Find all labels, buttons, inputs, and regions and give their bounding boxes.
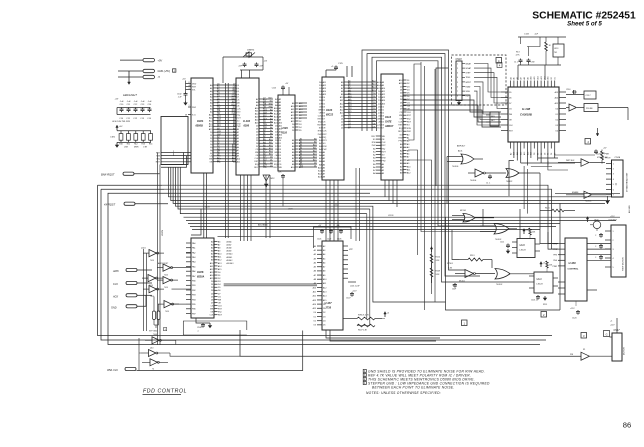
svg-text:RDY: RDY xyxy=(398,131,403,133)
wire loop below U101 xyxy=(161,153,187,168)
svg-text:PB2: PB2 xyxy=(192,290,196,292)
svg-text:PA6: PA6 xyxy=(192,270,195,273)
wire long bottom to motor driver xyxy=(240,330,581,356)
svg-text:+12V: +12V xyxy=(610,216,615,218)
svg-text:A8: A8 xyxy=(348,89,350,92)
svg-text:D1: D1 xyxy=(314,166,316,168)
title SCHEMATIC #252451 xyxy=(532,10,636,21)
svg-text:A14: A14 xyxy=(323,295,326,298)
ground CN18 xyxy=(457,101,460,105)
svg-text:A2: A2 xyxy=(323,245,325,248)
svg-text:D0: D0 xyxy=(348,114,350,116)
svg-text:A12: A12 xyxy=(263,164,266,167)
svg-text:C116: C116 xyxy=(566,89,570,91)
svg-text:PA3: PA3 xyxy=(192,256,195,259)
svg-text:A15: A15 xyxy=(547,76,550,79)
svg-text:SIDE: SIDE xyxy=(466,91,471,93)
wire ACK xyxy=(137,294,152,296)
IC U110 74LS123 xyxy=(512,239,540,258)
svg-text:A15: A15 xyxy=(348,110,351,113)
svg-text:IRQ: IRQ xyxy=(323,137,327,139)
svg-text:A7: A7 xyxy=(323,266,325,269)
IC U104 65C22 xyxy=(317,77,344,180)
svg-text:C1R2: C1R2 xyxy=(110,136,116,138)
svg-text:.1: .1 xyxy=(197,331,199,333)
bus corner wires into main bus xyxy=(169,167,617,302)
svg-text:SO: SO xyxy=(373,139,376,141)
svg-text:A13: A13 xyxy=(269,147,272,150)
svg-text:A5: A5 xyxy=(513,77,516,79)
resistor pair R116 R117 xyxy=(149,297,167,333)
svg-text:D0: D0 xyxy=(373,93,375,95)
svg-text:PH4: PH4 xyxy=(553,260,557,262)
svg-text:D5: D5 xyxy=(373,108,375,110)
svg-text:R13: R13 xyxy=(141,144,144,146)
svg-text:A14: A14 xyxy=(269,150,272,153)
svg-text:A14: A14 xyxy=(555,96,558,99)
U101 control pins lower-left xyxy=(156,151,191,164)
svg-text:PWR: PWR xyxy=(553,266,558,268)
svg-text:A9: A9 xyxy=(526,77,529,79)
pullup resistors R110 R111 xyxy=(430,247,454,283)
svg-text:1: 1 xyxy=(613,163,614,165)
ground LED network xyxy=(115,142,118,147)
svg-text:A8: A8 xyxy=(314,138,316,141)
svg-text:R113: R113 xyxy=(470,255,474,257)
svg-text:C107: C107 xyxy=(346,298,351,300)
svg-text:ERASE: ERASE xyxy=(572,191,579,194)
svg-text:IRQ: IRQ xyxy=(263,115,267,117)
svg-text:C1W: C1W xyxy=(531,62,535,64)
svg-text:74LS06: 74LS06 xyxy=(452,166,458,168)
svg-text:LS123: LS123 xyxy=(520,250,527,252)
svg-text:LE10 10N 7WL R/W: LE10 10N 7WL R/W xyxy=(112,121,130,123)
connector -5V xyxy=(143,75,160,79)
svg-text:3: 3 xyxy=(613,174,614,176)
svg-text:C112: C112 xyxy=(500,242,504,244)
svg-text:A2: A2 xyxy=(300,141,302,144)
svg-text:D1: D1 xyxy=(556,114,558,116)
transistor Q103 xyxy=(590,220,601,232)
svg-text:A1: A1 xyxy=(217,139,219,142)
svg-text:A13: A13 xyxy=(313,299,316,302)
connector GND2 xyxy=(111,305,137,310)
svg-text:IRQ: IRQ xyxy=(237,114,241,116)
svg-text:3: 3 xyxy=(189,88,190,90)
svg-text:U-109: U-109 xyxy=(569,261,577,265)
svg-text:D1: D1 xyxy=(348,117,350,119)
svg-text:R/W: R/W xyxy=(372,142,376,144)
svg-text:R110: R110 xyxy=(436,257,440,259)
svg-text:NOTES: UNLESS OTHERWISE SPECIF: NOTES: UNLESS OTHERWISE SPECIFIED: xyxy=(366,391,441,395)
svg-text:A10: A10 xyxy=(313,286,316,289)
svg-text:4: 4 xyxy=(613,179,614,181)
svg-text:D3: D3 xyxy=(544,153,546,155)
svg-text:A9: A9 xyxy=(323,274,325,277)
subtitle Sheet 5 of 5 xyxy=(567,21,602,28)
svg-text:CN14: CN14 xyxy=(615,156,621,159)
svg-text:S.O.: S.O. xyxy=(192,114,196,116)
svg-text:WGAT: WGAT xyxy=(466,67,472,70)
svg-text:D7: D7 xyxy=(509,103,511,105)
svg-text:D6: D6 xyxy=(217,101,219,103)
svg-text:A8: A8 xyxy=(300,159,302,162)
svg-text:A5.A8: A5.A8 xyxy=(227,247,232,250)
svg-text:R107 1.3K: R107 1.3K xyxy=(358,330,368,332)
svg-text:65C22: 65C22 xyxy=(326,114,334,117)
svg-text:IRQ: IRQ xyxy=(218,312,222,314)
bus wire taps down from U102 xyxy=(226,83,271,241)
inverter gates input cluster xyxy=(141,248,179,313)
svg-text:7414: 7414 xyxy=(150,260,154,262)
svg-text:D0: D0 xyxy=(217,84,219,86)
svg-text:PH3: PH3 xyxy=(553,255,557,257)
svg-text:A15: A15 xyxy=(313,159,316,162)
svg-text:R/W: R/W xyxy=(407,128,411,130)
bus wires U104 to U112 xyxy=(348,80,377,129)
bus wires U106 to U107 xyxy=(218,236,318,285)
svg-text:BNK-RQST: BNK-RQST xyxy=(101,173,115,177)
svg-text:RDY: RDY xyxy=(231,103,236,105)
power arrow +5V xyxy=(116,125,123,130)
svg-text:SO: SO xyxy=(319,128,322,130)
svg-text:D3: D3 xyxy=(314,325,316,327)
svg-text:A11: A11 xyxy=(313,290,316,293)
bus wires U102 to U103 xyxy=(263,98,274,168)
svg-text:A10: A10 xyxy=(323,278,326,281)
wire oscillator loop xyxy=(223,57,263,83)
svg-text:6116: 6116 xyxy=(282,132,288,135)
wire AMN xyxy=(137,269,152,271)
svg-text:+5: +5 xyxy=(610,321,612,323)
resistor R107 1.3K xyxy=(357,324,375,331)
svg-text:CTR: CTR xyxy=(143,146,148,148)
U112 pins right xyxy=(398,79,412,175)
svg-text:6500B: 6500B xyxy=(196,125,204,128)
wires into U109 from gates xyxy=(517,173,558,262)
svg-text:CLK: CLK xyxy=(237,109,242,111)
svg-text:U106: U106 xyxy=(197,270,204,274)
svg-text:74: 74 xyxy=(152,369,154,371)
svg-text:GND: GND xyxy=(111,307,117,310)
svg-text:R10: R10 xyxy=(119,144,122,146)
svg-text:A12: A12 xyxy=(537,76,540,79)
capacitor cluster above U107 xyxy=(314,225,352,248)
svg-text:R/W: R/W xyxy=(323,146,327,148)
svg-text:A9: A9 xyxy=(509,153,512,155)
U104 pins right xyxy=(340,81,353,130)
svg-text:D3: D3 xyxy=(556,125,558,127)
bus wire taps down to U106 xyxy=(191,173,206,238)
svg-text:DYNAM HEAD UNIT: DYNAM HEAD UNIT xyxy=(626,172,629,192)
svg-text:A9: A9 xyxy=(300,162,302,165)
svg-text:LS123: LS123 xyxy=(537,284,544,286)
svg-text:MSR: MSR xyxy=(134,146,139,148)
svg-text:A13: A13 xyxy=(348,104,351,107)
svg-text:D5: D5 xyxy=(323,325,325,327)
buffer to index box xyxy=(566,104,628,121)
svg-text:D1: D1 xyxy=(217,87,219,89)
wire bus drop to EPROM resistors xyxy=(357,209,370,326)
svg-text:U-108: U-108 xyxy=(522,107,531,111)
power arrow CN14 area xyxy=(586,217,588,222)
svg-text:RDY: RDY xyxy=(371,136,376,138)
svg-text:D0: D0 xyxy=(556,108,558,110)
svg-text:SO: SO xyxy=(323,143,326,145)
svg-text:ACK: ACK xyxy=(112,295,118,298)
svg-text:A9: A9 xyxy=(348,92,350,95)
svg-text:PB7: PB7 xyxy=(192,313,196,315)
ground stub below power connectors xyxy=(128,71,131,84)
svg-text:CLK: CLK xyxy=(382,142,387,144)
svg-text:PB1: PB1 xyxy=(192,285,196,287)
svg-text:2: 2 xyxy=(613,169,614,171)
svg-text:AERT RQST: AERT RQST xyxy=(158,262,169,265)
gate G1 7406 xyxy=(447,150,483,169)
svg-text:A7: A7 xyxy=(348,86,350,89)
svg-text:C127: C127 xyxy=(327,239,331,241)
bus wires U101 to U102 xyxy=(217,84,237,163)
svg-text:+12V: +12V xyxy=(570,308,575,310)
svg-text:TR00: TR00 xyxy=(466,77,471,79)
bus wire taps down from U112 xyxy=(385,180,397,207)
U103 pins right xyxy=(291,102,304,169)
svg-text:A11: A11 xyxy=(533,76,536,79)
svg-text:A11: A11 xyxy=(263,162,266,165)
svg-text:MC101: MC101 xyxy=(460,210,466,212)
svg-text:U112: U112 xyxy=(385,115,392,119)
svg-text:D0: D0 xyxy=(314,312,316,314)
wire WML CLK xyxy=(137,331,303,371)
wire staircase bus to U108 xyxy=(403,68,501,186)
gate G3 or xyxy=(506,169,540,184)
svg-text:A4: A4 xyxy=(323,253,325,256)
IC U109 control xyxy=(553,238,587,301)
U101 address/data pins right xyxy=(209,84,222,164)
svg-text:A13: A13 xyxy=(523,152,526,155)
svg-text:L1124: L1124 xyxy=(388,215,394,217)
svg-text:D5: D5 xyxy=(509,92,511,94)
capacitor C125 above U104 xyxy=(326,63,344,77)
gate G4 or upper xyxy=(452,210,494,222)
svg-text:5: 5 xyxy=(457,82,458,84)
capacitor C121 22p xyxy=(239,63,247,68)
svg-text:A8: A8 xyxy=(263,153,265,156)
IC U108 CA3018B xyxy=(501,76,566,155)
svg-text:A13: A13 xyxy=(313,153,316,156)
wire GND2 xyxy=(137,295,146,306)
svg-text:A7: A7 xyxy=(217,156,219,159)
svg-text:A1: A1 xyxy=(314,249,316,252)
svg-text:D3: D3 xyxy=(348,123,350,125)
wire vertical pair gate cluster xyxy=(144,249,192,331)
svg-text:38: 38 xyxy=(185,114,187,116)
svg-text:C126: C126 xyxy=(317,239,321,241)
svg-text:LED/LIGHT: LED/LIGHT xyxy=(123,93,137,97)
svg-text:PA1: PA1 xyxy=(192,247,195,250)
svg-text:D2: D2 xyxy=(314,321,316,323)
svg-text:74LS04: 74LS04 xyxy=(470,180,476,182)
svg-text:D1: D1 xyxy=(373,96,375,98)
svg-text:6: 6 xyxy=(457,86,458,88)
svg-text:CLK: CLK xyxy=(318,115,323,117)
svg-text:CLK: CLK xyxy=(232,94,237,96)
svg-text:A5: A5 xyxy=(314,266,316,269)
svg-text:MC101: MC101 xyxy=(459,281,465,283)
svg-text:A12: A12 xyxy=(313,150,316,153)
svg-text:PB0: PB0 xyxy=(192,281,196,283)
connector CLK xyxy=(113,281,137,286)
connector BNK-RQST xyxy=(101,172,134,177)
svg-text:IRQ: IRQ xyxy=(255,164,259,166)
svg-text:6: 6 xyxy=(613,189,614,191)
svg-text:5: 5 xyxy=(613,267,614,269)
svg-text:A6: A6 xyxy=(270,126,272,129)
wire trunk left vertical xyxy=(158,153,165,346)
capacitor network right of U108 xyxy=(566,89,596,99)
svg-text:A6: A6 xyxy=(263,147,265,150)
svg-text:A15: A15 xyxy=(555,102,558,105)
svg-text:AMI LED: AMI LED xyxy=(628,205,631,213)
svg-text:A2: A2 xyxy=(314,253,316,256)
svg-text:A6: A6 xyxy=(348,83,350,86)
svg-text:A6: A6 xyxy=(323,261,325,264)
svg-text:D7: D7 xyxy=(217,104,219,106)
wire vertical right area xyxy=(447,157,560,311)
svg-text:G: G xyxy=(606,333,608,336)
RC parts above U111 xyxy=(540,261,553,272)
svg-text:A4.A7: A4.A7 xyxy=(227,244,232,247)
svg-text:R/W: R/W xyxy=(382,158,386,160)
svg-text:CONTROL: CONTROL xyxy=(568,269,579,271)
RC network above U108 xyxy=(514,34,566,81)
svg-text:A5: A5 xyxy=(217,150,219,153)
svg-text:A6: A6 xyxy=(314,270,316,273)
wire risers right of U112 xyxy=(408,62,495,310)
svg-text:A10: A10 xyxy=(313,144,316,147)
svg-text:AMP ACT: AMP ACT xyxy=(457,145,466,148)
svg-text:D0: D0 xyxy=(323,304,325,306)
bus wires U103 to U104 xyxy=(299,103,317,168)
connector AMN xyxy=(112,268,137,273)
svg-text:D6: D6 xyxy=(509,97,511,99)
svg-text:D7: D7 xyxy=(373,114,375,116)
svg-text:R/W: R/W xyxy=(237,123,241,125)
svg-text:A9: A9 xyxy=(314,282,316,285)
wire GND xyxy=(118,70,143,72)
capacitors at CN14 xyxy=(595,205,631,260)
svg-text:+12V: +12V xyxy=(610,325,615,327)
power arrow +5V right of U107 xyxy=(382,312,390,319)
svg-text:D1: D1 xyxy=(323,308,325,310)
svg-text:PA7: PA7 xyxy=(192,275,195,278)
svg-text:A0: A0 xyxy=(314,245,316,248)
buffer into CN15 pin5 xyxy=(566,191,606,202)
svg-text:4X-RQST: 4X-RQST xyxy=(104,203,116,207)
svg-text:RDY: RDY xyxy=(156,162,161,164)
svg-text:CLK: CLK xyxy=(210,315,215,317)
svg-text:A12: A12 xyxy=(323,286,326,289)
connector CN14 stepper motor xyxy=(605,216,626,277)
svg-text:1W: 1W xyxy=(605,157,608,159)
svg-text:R115: R115 xyxy=(543,304,547,306)
svg-text:C128: C128 xyxy=(337,239,341,241)
svg-text:4: 4 xyxy=(613,258,614,260)
svg-text:A8: A8 xyxy=(270,132,272,135)
svg-text:A4: A4 xyxy=(217,148,219,151)
svg-text:A10: A10 xyxy=(269,138,272,141)
svg-text:A8: A8 xyxy=(523,77,526,79)
svg-text:A4: A4 xyxy=(270,120,272,123)
svg-text:SO: SO xyxy=(407,125,410,127)
wire +5V xyxy=(120,59,143,61)
svg-text:D2: D2 xyxy=(270,163,272,165)
svg-text:D0: D0 xyxy=(314,163,316,165)
svg-text:8: 8 xyxy=(189,82,190,84)
svg-text:RDY: RDY xyxy=(317,125,322,127)
connector CN16 stub xyxy=(594,150,611,160)
IC U101 6500B CPU xyxy=(177,78,213,173)
svg-text:1: 1 xyxy=(613,231,614,233)
svg-text:RDAT: RDAT xyxy=(466,85,472,88)
svg-text:+5V: +5V xyxy=(158,59,163,62)
svg-text:U104: U104 xyxy=(326,108,333,112)
wires below U107 xyxy=(326,330,440,341)
svg-text:A13: A13 xyxy=(372,83,375,86)
capacitor below U106 xyxy=(196,318,210,333)
connector ACK xyxy=(112,294,137,299)
note box 4 in CN18 xyxy=(497,63,502,68)
svg-text:A10.A13: A10.A13 xyxy=(227,262,234,265)
svg-text:A10: A10 xyxy=(348,95,351,98)
RC parts above U110 xyxy=(523,228,536,239)
svg-text:2716: 2716 xyxy=(325,307,332,310)
svg-text:A9: A9 xyxy=(270,135,272,138)
svg-text:A2: A2 xyxy=(263,135,265,138)
connector CN17 motor xyxy=(612,329,626,361)
svg-text:A0: A0 xyxy=(270,108,272,111)
svg-text:PH2: PH2 xyxy=(269,106,273,108)
gate cluster bottom left xyxy=(141,334,176,370)
svg-text:D3: D3 xyxy=(323,316,325,318)
gate G5 nor xyxy=(480,224,517,242)
svg-text:STEP MOTOR: STEP MOTOR xyxy=(623,257,625,271)
svg-text:+5V: +5V xyxy=(119,126,123,128)
connector CN18 xyxy=(452,55,507,105)
svg-text:ARRAY: ARRAY xyxy=(384,125,394,128)
bus wire taps down from U104 xyxy=(326,180,338,241)
filter box left of U108 xyxy=(457,112,499,148)
svg-text:D4: D4 xyxy=(323,321,325,323)
svg-text:CLK: CLK xyxy=(377,125,382,127)
svg-text:A3.A6: A3.A6 xyxy=(227,241,232,244)
ground box G xyxy=(604,331,613,338)
resistor network below CN15 xyxy=(540,208,575,212)
svg-text:D0: D0 xyxy=(534,153,536,155)
svg-text:R/W: R/W xyxy=(269,104,273,106)
svg-text:A3: A3 xyxy=(314,257,316,260)
svg-text:R120: R120 xyxy=(596,154,601,156)
wire 4X-RQST xyxy=(135,203,168,205)
wires below U108 xyxy=(509,149,595,214)
svg-text:D1: D1 xyxy=(555,77,557,79)
svg-text:R13: R13 xyxy=(516,52,519,54)
svg-text:R/W: R/W xyxy=(263,124,267,126)
svg-text:6206: 6206 xyxy=(244,125,250,128)
connector GND xyxy=(143,69,176,73)
svg-text:A14: A14 xyxy=(313,156,316,159)
svg-text:D4: D4 xyxy=(373,105,375,107)
